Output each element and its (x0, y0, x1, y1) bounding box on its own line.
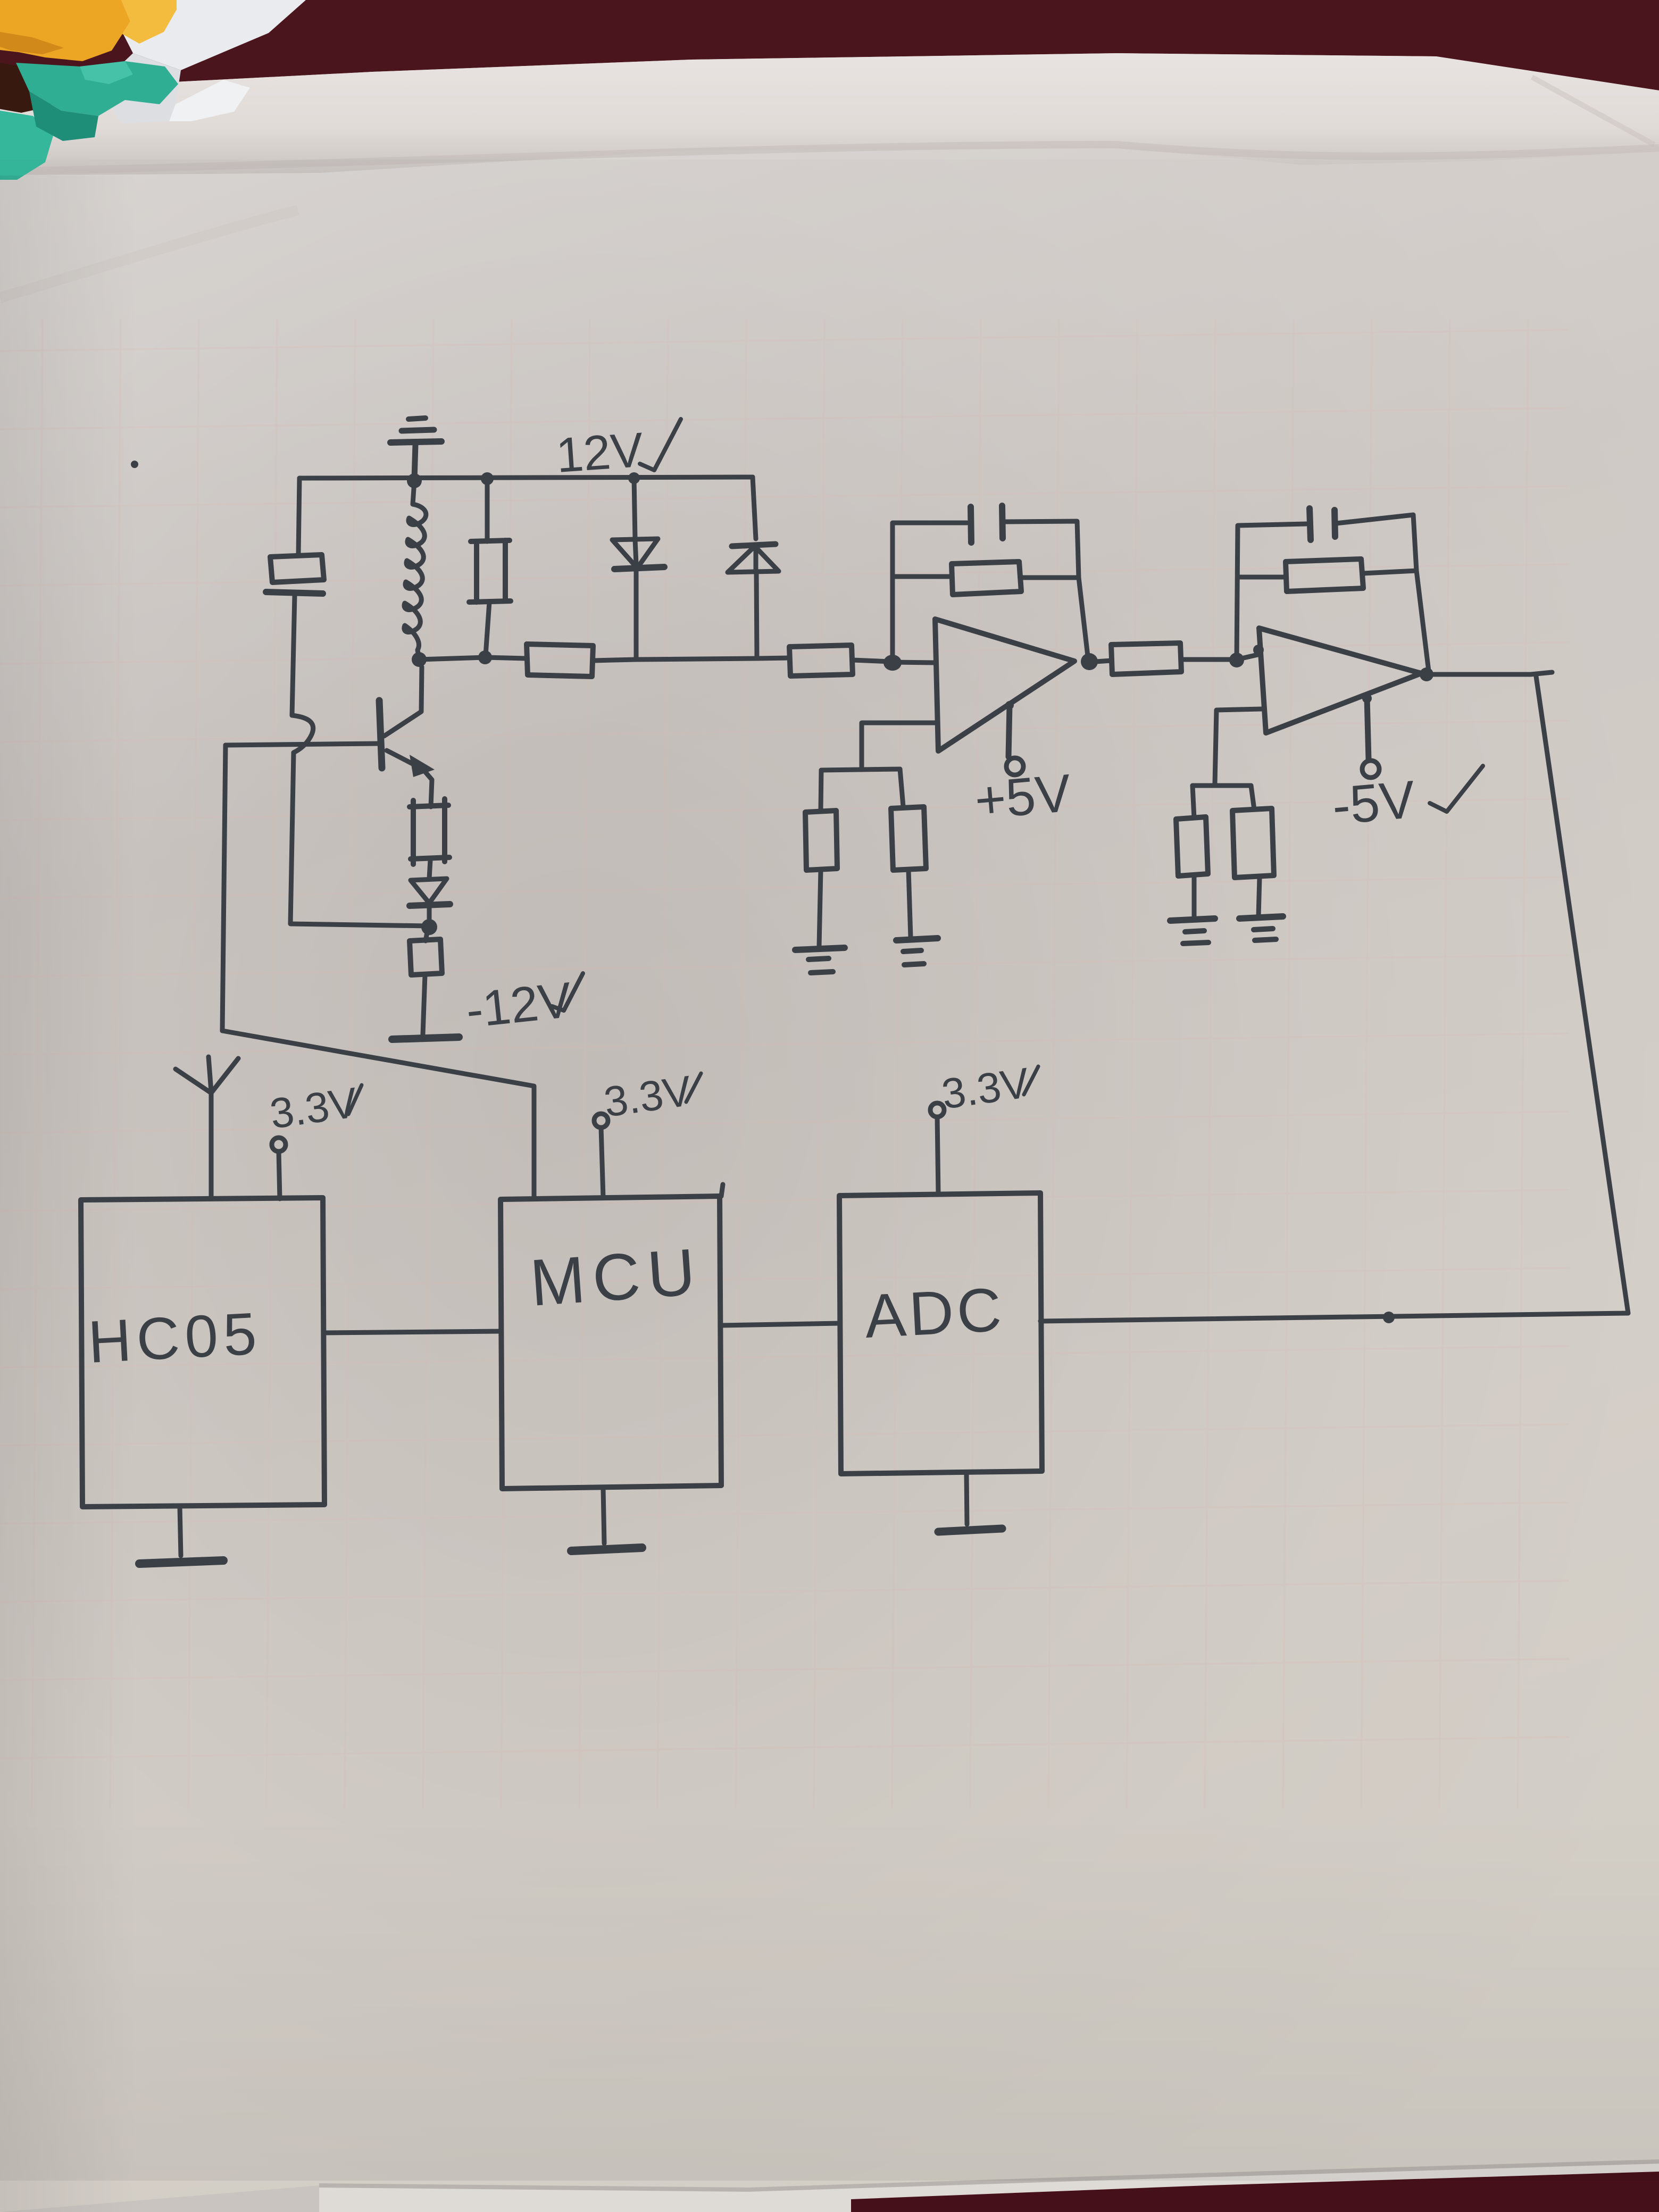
svg-text:MCU: MCU (528, 1235, 705, 1320)
op-amp U2 feedback cap loop (1237, 524, 1306, 660)
ground bar -12V (392, 1037, 459, 1039)
resistor R2 (527, 644, 593, 677)
junction dot H on feedback (1383, 1312, 1395, 1323)
wire base-left vertical (222, 745, 226, 1031)
wire rail to crystal (298, 478, 299, 555)
node 12V rail (299, 477, 753, 478)
antenna (176, 1057, 238, 1199)
transistor Q1 (379, 667, 435, 807)
ground G3 (896, 938, 938, 965)
MCU ground (571, 1489, 642, 1551)
small ink speck (131, 461, 138, 468)
ground G5 (1239, 916, 1283, 940)
capacitor C1 (971, 507, 971, 542)
faint pink grid (0, 319, 1569, 1808)
junction dot E (478, 650, 492, 664)
U1 + input network (862, 723, 937, 770)
svg-text:HC05: HC05 (87, 1300, 263, 1375)
resistor R9 (1176, 817, 1208, 876)
resistor R6 (891, 807, 926, 870)
label -12V (463, 972, 583, 1038)
bottom paper edges and maroon wedge (319, 2161, 1659, 2212)
capacitor C2 (1310, 508, 1311, 540)
HC05 ground (139, 1507, 223, 1564)
diode D2 (728, 477, 779, 658)
wire HC05-MCU (324, 1331, 501, 1333)
op-amp U2 (1259, 628, 1421, 733)
U1 power pin (1005, 701, 1023, 775)
box ADC (839, 1193, 1042, 1474)
lower rail (419, 657, 527, 660)
resistor R1 (469, 479, 511, 655)
U2 output wire (1433, 672, 1552, 674)
U1 output node dot (1081, 653, 1098, 670)
U2 output node dot (1420, 667, 1433, 681)
op-amp U2 feedback resistor loop (1238, 575, 1286, 580)
box MCU (501, 1196, 721, 1489)
wire crystal to diode junction (290, 753, 429, 926)
diode D1 (612, 478, 664, 658)
shadow crease above main sheet edge (0, 145, 1659, 171)
resistor RF2 (1286, 559, 1363, 591)
ground (top) (390, 418, 441, 480)
svg-text:+5V: +5V (972, 763, 1073, 831)
op-amp U1 feedback cap loop (893, 523, 967, 662)
ground G4 (1170, 919, 1215, 944)
junction dot D (coil bottom) (412, 652, 427, 667)
junction dot F (U1 inverting node) (883, 655, 902, 671)
3.3V pin ADC (930, 1059, 1038, 1194)
resistor R10 (1232, 808, 1274, 878)
yellow paper (0, 0, 130, 61)
svg-text:-5V: -5V (1330, 770, 1418, 836)
op-amp U1 (935, 619, 1074, 751)
resistor R4 (410, 799, 449, 879)
resistor R7 (1096, 661, 1111, 662)
3.3V pin MCU (594, 1067, 701, 1198)
white strip paper under maroon (0, 53, 1659, 176)
junction dot A (407, 473, 422, 488)
op-amp U1 feedback resistor loop (893, 574, 952, 579)
wire U2 inverting input (1237, 654, 1260, 660)
long feedback wire right (1040, 677, 1628, 1321)
U2 + input network (1215, 709, 1262, 784)
top-left white crumpled paper (106, 0, 306, 70)
junction dot I (421, 919, 437, 935)
label -5V (1330, 766, 1483, 836)
teal crumpled paper (16, 61, 178, 116)
ground G2 (795, 948, 845, 973)
crystal X1 (266, 555, 324, 715)
box HC05 (81, 1198, 324, 1507)
top-left: dark table shadow patch (0, 63, 56, 113)
resistor R3 (789, 645, 853, 676)
3.3V pin HC05 (267, 1079, 362, 1199)
inductor L1 (404, 481, 426, 660)
wire (853, 660, 891, 662)
base wire (226, 744, 379, 745)
label +5V (972, 763, 1073, 831)
top maroon band (0, 0, 1659, 90)
svg-text:ADC: ADC (863, 1274, 1006, 1351)
svg-text:12V: 12V (554, 423, 645, 483)
wire MCU-ADC (721, 1323, 839, 1325)
wire (593, 658, 789, 661)
wire slant to MCU (222, 1031, 534, 1198)
junction dot B (481, 472, 494, 485)
junction dot C (628, 472, 640, 484)
resistor R11 (square) (410, 927, 442, 1034)
label 12V (554, 419, 681, 483)
diode D3 (410, 879, 450, 924)
subtle paper creases (0, 210, 298, 298)
wire hop over base wire (292, 715, 313, 753)
svg-text:-12V: -12V (463, 972, 574, 1038)
U2 power pin (1362, 694, 1379, 778)
resistor RF1 (952, 562, 1021, 595)
resistor R5 (805, 811, 837, 870)
wire (1181, 657, 1237, 662)
ADC ground (938, 1474, 1002, 1532)
wire U1 inverting input (891, 662, 935, 663)
junction dot G (U2 inverting node) (1229, 653, 1244, 667)
